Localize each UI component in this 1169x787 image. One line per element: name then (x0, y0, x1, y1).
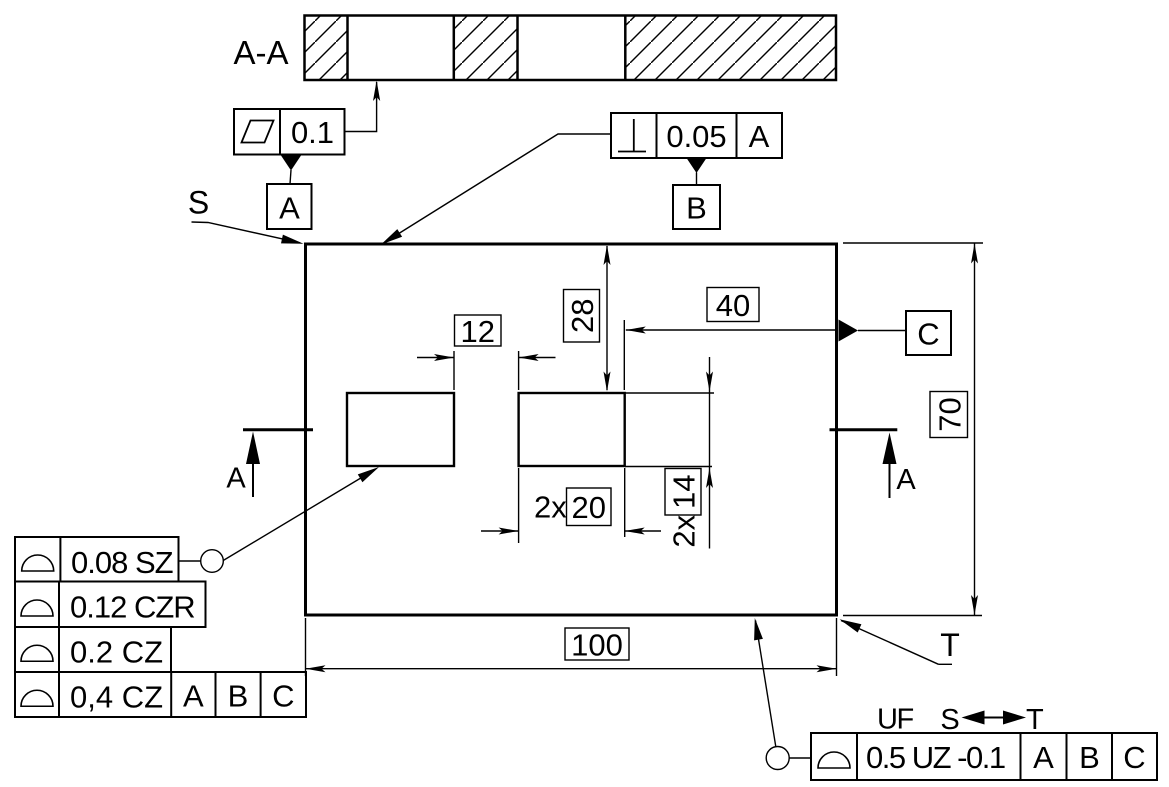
section A-A cross-section bar (305, 14, 837, 82)
profile frame row 1: 0.08 SZ (15, 537, 179, 582)
svg-text:70: 70 (932, 397, 967, 431)
svg-text:B: B (228, 679, 249, 714)
svg-text:2x: 2x (534, 490, 567, 525)
profile frame row 3: 0.2 CZ (15, 627, 171, 672)
svg-text:0.12 CZR: 0.12 CZR (70, 590, 195, 625)
point S label and leader to top-left corner (188, 185, 304, 244)
svg-text:S: S (940, 704, 959, 736)
svg-text:T: T (1026, 704, 1044, 736)
svg-text:0,4 CZ: 0,4 CZ (70, 680, 163, 715)
point T label and leader to bottom-right corner (840, 619, 960, 664)
svg-text:0.05: 0.05 (666, 119, 726, 154)
svg-text:B: B (1079, 740, 1100, 775)
svg-text:S: S (188, 185, 209, 221)
dimension 2x 20 (hole width) (481, 468, 661, 543)
svg-text:A: A (279, 191, 300, 226)
perpendicularity feature control frame 0.05 A (611, 113, 782, 158)
datum feature symbol B (triangle and box) (673, 158, 720, 229)
datum feature symbol C (filled triangle on right edge and box) (839, 311, 952, 355)
svg-text:A-A: A-A (233, 34, 288, 71)
svg-text:100: 100 (571, 627, 623, 662)
leader with circle to left hole surface (179, 467, 380, 572)
profile frame bottom: 0.5 UZ -0.1 A B C (811, 733, 1157, 780)
svg-text:0.08 SZ: 0.08 SZ (71, 545, 173, 580)
svg-text:14: 14 (667, 475, 702, 509)
svg-text:12: 12 (460, 314, 494, 349)
svg-text:A: A (226, 463, 246, 495)
main plate outline (306, 244, 837, 615)
flatness feature control frame 0.1 (234, 109, 345, 155)
svg-text:A: A (183, 679, 204, 714)
svg-text:2x: 2x (667, 514, 702, 547)
dimension 12 (gap between holes) (417, 314, 556, 390)
svg-text:C: C (1123, 740, 1145, 775)
svg-text:28: 28 (565, 299, 600, 333)
right rectangular hole (519, 393, 625, 466)
leader with circle from bottom frame to plate bottom edge (754, 618, 811, 770)
dimension 70 (plate height) (843, 243, 983, 616)
svg-text:UF: UF (877, 704, 913, 736)
datum feature symbol A (triangle and box) (267, 156, 312, 230)
leader from perpendicularity frame to plate top edge (381, 134, 611, 245)
svg-text:20: 20 (571, 490, 605, 525)
svg-text:40: 40 (716, 288, 750, 323)
dimension 100 (plate width) (306, 618, 837, 676)
united feature annotation UF S-T (877, 704, 1044, 737)
left rectangular hole (347, 393, 454, 466)
svg-text:0.5 UZ -0.1: 0.5 UZ -0.1 (866, 740, 1005, 775)
dimension 2x 14 (hole height) (625, 357, 714, 549)
svg-text:A: A (1033, 740, 1054, 775)
svg-text:C: C (917, 316, 939, 351)
svg-text:C: C (272, 679, 294, 714)
svg-text:0.1: 0.1 (291, 115, 334, 150)
svg-text:A: A (749, 119, 770, 154)
svg-text:0.2 CZ: 0.2 CZ (70, 635, 163, 670)
profile frame row 2: 0.12 CZR (15, 582, 206, 628)
section cutting line arrow A (right) (830, 430, 917, 498)
profile frame row 4: 0,4 CZ A B C (15, 672, 306, 717)
dimension 28 (top edge to hole top) (564, 245, 611, 392)
section cutting line arrow A (left) (226, 430, 313, 497)
dimension 40 (hole edge to right edge) (624, 288, 837, 391)
svg-text:A: A (896, 464, 916, 496)
svg-text:T: T (940, 627, 960, 663)
svg-text:B: B (686, 191, 707, 226)
leader from flatness frame to section bar (345, 81, 381, 132)
